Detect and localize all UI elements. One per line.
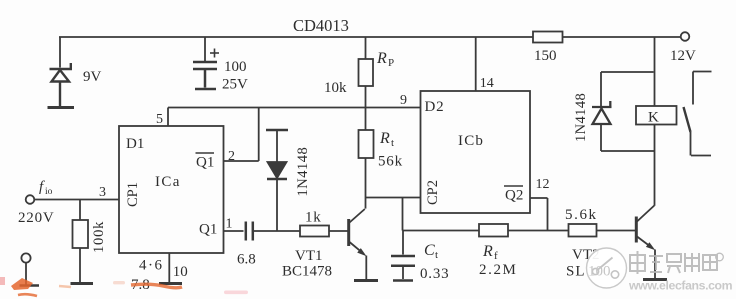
svg-text:Q1: Q1 (199, 222, 217, 238)
annotation pink smudge (224, 291, 248, 295)
svg-text:R: R (482, 243, 493, 260)
wire Rf to 5.6k (508, 230, 569, 232)
svg-text:R: R (379, 130, 390, 147)
label RP (376, 50, 394, 69)
ground bar VT2 emitter (643, 278, 667, 281)
label 100 25V (222, 59, 248, 93)
wire pin 5 drop to ICa (167, 108, 169, 127)
annotation faint smudge (113, 281, 125, 284)
wire diode2 top link (601, 72, 654, 106)
svg-text:10k: 10k (324, 80, 347, 96)
svg-text:CD4013: CD4013 (293, 16, 349, 35)
svg-text:io: io (45, 187, 53, 197)
svg-text:D2: D2 (425, 99, 445, 115)
svg-text:www.elecfans.com: www.elecfans.com (628, 279, 733, 293)
svg-text:6.8: 6.8 (237, 252, 256, 268)
label Q2bar (504, 186, 523, 204)
svg-text:1k: 1k (305, 210, 322, 226)
wire zener branch from rail (59, 37, 61, 68)
label + polarity (210, 49, 219, 58)
diode 1N4148 right (592, 101, 612, 124)
svg-text:12: 12 (536, 177, 550, 192)
svg-text:100: 100 (588, 264, 611, 280)
svg-text:12V: 12V (670, 48, 696, 64)
svg-text:150: 150 (534, 48, 557, 64)
annotation orange strike 7.8 (131, 284, 182, 288)
wire pin 14 drop to ICb (475, 37, 477, 91)
svg-text:1N4148: 1N4148 (295, 147, 311, 197)
terminal f io input (26, 195, 119, 204)
ground bar Ct (393, 279, 413, 282)
svg-text:10: 10 (173, 264, 188, 280)
svg-text:3: 3 (99, 185, 106, 200)
diode 1N4148 left (266, 130, 288, 231)
label Rt (379, 130, 394, 149)
svg-text:t: t (391, 137, 394, 149)
svg-text:220V: 220V (18, 210, 55, 226)
svg-text:t: t (435, 249, 438, 261)
ground bar below lower terminal (20, 284, 40, 287)
op-amp U1 ICa flip-flop box D1 (119, 126, 224, 253)
wire capacitor C 100uF branch from rail (204, 37, 206, 61)
wire pin 10 drop (168, 253, 170, 282)
watermark chinese characters (630, 251, 723, 274)
resistor RP (359, 37, 374, 130)
resistor Rf (479, 224, 508, 237)
svg-text:SL: SL (566, 264, 586, 280)
svg-text:0.33: 0.33 (420, 266, 449, 282)
resistor 5.6k (569, 224, 636, 237)
wire node bus pin5 to pin9 (168, 107, 421, 109)
terminal lower input (21, 253, 30, 284)
ground bar VT1 emitter (354, 279, 378, 282)
wire top supply rail right of 150 resistor (563, 36, 681, 38)
wire pin 2 Q1bar riser (224, 108, 259, 162)
wire capacitor to 1k (254, 230, 300, 232)
svg-text:2: 2 (228, 149, 235, 164)
svg-text:1N4148: 1N4148 (573, 93, 589, 142)
op-amp U2 ICb flip-flop box D2 (421, 91, 531, 213)
annotation orange squiggle bottom (18, 294, 37, 296)
wire collector node to CP2 (366, 197, 421, 199)
capacitor Ct (391, 231, 415, 280)
capacitor 6.8 (246, 222, 253, 241)
transistor Q1 VT1 (349, 209, 367, 279)
resistor Rt (359, 130, 374, 209)
svg-text:CP1: CP1 (125, 182, 141, 207)
annotation pink left edge (0, 277, 5, 285)
svg-text:ICa: ICa (155, 174, 181, 190)
wire top supply rail left of 150 resistor (59, 36, 533, 38)
svg-text:f: f (494, 250, 498, 262)
wire relay bottom to VT2 collector (654, 125, 656, 206)
switch contact (684, 72, 712, 156)
capacitor 100/25V electrolytic (193, 62, 217, 88)
svg-text:4·6: 4·6 (139, 258, 164, 274)
transistor Q2 VT2 (636, 206, 655, 279)
svg-text:BC1478: BC1478 (282, 264, 332, 280)
resistor 1k (300, 226, 348, 237)
svg-text:14: 14 (480, 76, 494, 91)
resistor 150 (533, 32, 563, 65)
svg-text:9: 9 (400, 93, 407, 108)
terminal 12V (670, 32, 696, 64)
label SL100 (566, 264, 586, 280)
annotation orange dash (59, 286, 71, 287)
svg-text:100k: 100k (91, 221, 107, 253)
svg-text:VT1: VT1 (295, 248, 323, 264)
ground bar below capacitor (195, 88, 216, 91)
svg-text:5.6k: 5.6k (565, 207, 598, 223)
label VT1 BC1478 (282, 248, 332, 280)
resistor 100k (73, 200, 89, 283)
label Q1bar (196, 153, 215, 171)
wire Ct riser (402, 198, 404, 231)
ground bar pin 10 (159, 282, 182, 285)
svg-text:2.2M: 2.2M (479, 262, 518, 278)
label f io (39, 179, 53, 197)
wire Q1 pin1 to capacitor (224, 230, 244, 232)
zener diode 9V (50, 63, 73, 106)
svg-text:P: P (388, 57, 394, 69)
svg-text:D1: D1 (126, 136, 144, 152)
svg-text:9V: 9V (83, 69, 102, 85)
svg-text:5: 5 (156, 112, 163, 127)
annotation orange blob left (11, 278, 33, 290)
svg-text:C: C (424, 242, 435, 259)
wire Rf bus (403, 230, 480, 232)
svg-text:1: 1 (226, 217, 233, 232)
watermark elecfans logo disc (587, 248, 627, 288)
svg-text:R: R (376, 50, 387, 67)
label Rf 2.2M (479, 243, 518, 278)
wire diode2 bottom link (601, 124, 655, 151)
svg-text:Q2: Q2 (505, 188, 523, 204)
wire relay branch from rail (654, 37, 656, 106)
svg-text:K: K (648, 110, 659, 126)
svg-text:CP2: CP2 (425, 180, 441, 205)
svg-text:Q1: Q1 (196, 155, 214, 171)
svg-text:25V: 25V (222, 77, 248, 93)
wire Q2bar pin12 to Rf bus (530, 198, 548, 231)
relay K coil box (636, 106, 677, 126)
svg-text:56k: 56k (378, 154, 403, 170)
ground bar below zener (48, 106, 75, 109)
label Ct 0.33 (420, 242, 449, 282)
ground bar below 100k (71, 282, 94, 285)
svg-text:ICb: ICb (458, 133, 484, 149)
svg-text:100: 100 (224, 59, 247, 75)
